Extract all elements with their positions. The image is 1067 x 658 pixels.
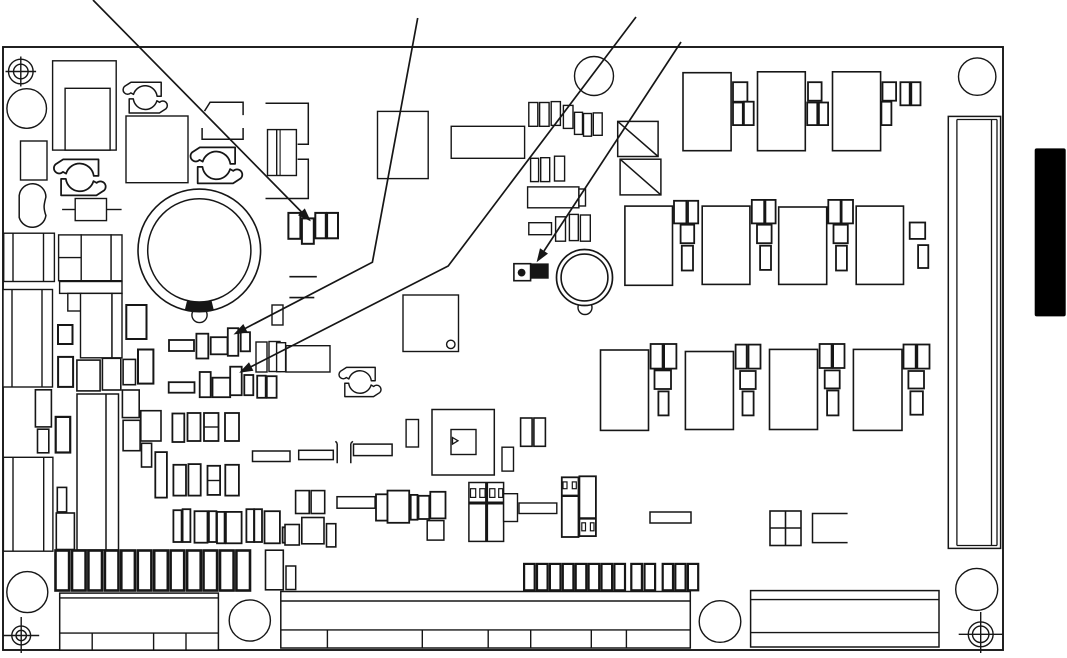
resistor R3 — [81, 293, 113, 357]
jumper JP1 (arrow 4 target) — [514, 264, 548, 281]
relay K3 — [562, 476, 596, 537]
connector J4 — [3, 290, 53, 388]
cluster rect g — [38, 429, 49, 453]
resistor R7 — [519, 503, 557, 514]
fiducial top-left — [6, 57, 37, 87]
trimmer assembly VR1 — [337, 491, 446, 523]
capacitor C6 — [59, 235, 82, 281]
connector J8 pin rows — [524, 564, 698, 590]
mounting hole bottom-left — [7, 572, 48, 613]
square module U2 — [126, 116, 188, 183]
capacitor C15 — [285, 525, 299, 546]
arrowhead 3 — [239, 362, 253, 372]
capacitor C12 — [502, 447, 514, 471]
IC row2-2 — [702, 200, 775, 285]
bracket component — [813, 514, 848, 543]
capacitor C16 — [327, 524, 336, 547]
mounting hole bottom-right — [956, 568, 998, 610]
fiducial bottom-left — [3, 617, 40, 653]
IC row2-4 — [856, 206, 903, 284]
resistor R5 — [253, 451, 291, 462]
dual hole pad (peanut) — [19, 184, 46, 228]
capacitor C10 — [58, 325, 73, 344]
resistor R4 — [112, 293, 122, 357]
connector J11 vertical right — [948, 116, 1000, 548]
cluster rect l — [141, 411, 161, 441]
cluster rect p — [56, 513, 74, 550]
cluster rect e — [138, 350, 153, 384]
capacitor C11 — [126, 305, 146, 339]
connector J9 long — [281, 592, 691, 649]
cluster rect o — [57, 487, 66, 512]
cluster rect j — [122, 390, 139, 418]
callout line 2 — [243, 18, 418, 330]
capacitor C14 — [302, 518, 324, 544]
arrowhead 2 — [234, 324, 248, 335]
relay K1 body — [268, 130, 297, 176]
relay K2 tab — [504, 494, 518, 522]
capacitor C1 — [21, 141, 48, 180]
cluster rect m — [142, 443, 152, 467]
relay K1 bracket — [266, 103, 309, 198]
capacitor pair row2 end — [910, 223, 929, 269]
IC U4 — [451, 126, 524, 158]
capacitor C17 — [286, 566, 296, 590]
small IC U9 — [406, 420, 418, 448]
cluster rect n — [155, 452, 167, 498]
capacitor cluster G4 — [556, 214, 591, 241]
electrolytic capacitor C5 — [557, 250, 613, 315]
IC U10 with pin1 mark — [432, 410, 494, 476]
mounting hole top-right — [959, 58, 996, 95]
capacitor C3 — [272, 305, 283, 325]
fuse F1 with clips — [299, 441, 392, 463]
spring clip CL2 — [191, 147, 243, 183]
cluster rect c — [102, 358, 120, 390]
IC U5 — [528, 187, 586, 208]
capacitor pair G7 — [256, 342, 286, 373]
capacitor C9 — [68, 293, 81, 311]
cluster rect b — [77, 360, 100, 391]
spring clip CL4 — [339, 367, 381, 396]
keyed connector J2 outline — [202, 102, 243, 139]
mounting hole top-center — [575, 57, 614, 96]
bar resistor R2 — [60, 282, 122, 294]
IC U8 tall — [77, 394, 119, 550]
capacitor pair G9 — [296, 491, 325, 514]
diode D2 — [620, 159, 661, 195]
IC U7 — [286, 346, 330, 372]
spring clip CL1 — [123, 82, 167, 113]
callout line 1 — [93, 0, 303, 214]
diode D1 — [618, 121, 658, 156]
capacitor row RA — [172, 413, 239, 442]
IC row2-1 — [625, 201, 698, 285]
mounting hole bottom-mid-right — [699, 601, 741, 643]
spring clip CL3 — [54, 159, 106, 195]
connector J12 left edge — [3, 457, 53, 551]
cluster rect a — [58, 357, 73, 387]
cluster rect i — [56, 417, 70, 453]
cluster rect d — [123, 359, 135, 384]
callout line 3 — [249, 17, 637, 368]
arrowhead 1 — [298, 208, 311, 221]
cluster rect f — [35, 390, 51, 427]
capacitor row RC — [173, 509, 289, 543]
IC row1-3 — [833, 72, 897, 151]
relay K2 — [469, 483, 504, 542]
connector J7 vertical — [266, 550, 284, 590]
silkscreen line A — [289, 276, 316, 278]
capacitor pair row1 end — [900, 82, 920, 105]
capacitor block G10 — [770, 511, 801, 546]
mounting hole top-left — [7, 89, 47, 129]
connector J10 — [751, 591, 939, 647]
mounting hole bottom-center — [229, 600, 270, 641]
capacitor cluster G2 — [529, 102, 602, 137]
transformer T1 — [53, 61, 117, 150]
resistor R1 with leads — [62, 199, 122, 221]
capacitor C13 — [427, 521, 444, 541]
connector J5 pin row — [56, 551, 251, 591]
IC row1-2 — [758, 72, 829, 151]
edge tab marker (black) — [1035, 148, 1066, 316]
capacitor C8 — [111, 235, 122, 281]
IC row3-3 — [770, 344, 845, 430]
callout line 4 — [544, 42, 681, 251]
capacitor pair G8 — [521, 418, 546, 446]
IC U3 — [378, 111, 429, 178]
capacitor row G5 (arrow 2 target) — [169, 328, 250, 358]
silkscreen line B — [289, 297, 314, 299]
electrolytic capacitor C2 (large) — [138, 189, 261, 323]
capacitor C7 — [81, 235, 111, 281]
connector J3 — [4, 233, 55, 281]
IC row3-2 — [685, 345, 760, 430]
IC row3-1 — [601, 344, 677, 430]
capacitor row RB — [173, 464, 239, 496]
IC row1-1 — [683, 73, 754, 151]
capacitor cluster G3 — [531, 156, 565, 181]
connector J6 — [60, 593, 219, 650]
resistor R8 — [650, 512, 691, 523]
cluster rect k — [123, 420, 140, 450]
IC row3-4 — [853, 345, 929, 431]
capacitor C4 — [529, 223, 552, 235]
capacitor group G1 (arrow 1 target) — [288, 213, 338, 244]
capacitor row G6 (arrow 3 target) — [169, 367, 277, 398]
IC U6 with pin-1 dot — [403, 295, 459, 352]
IC row2-3 — [779, 200, 853, 285]
arrowhead 4 — [537, 248, 548, 262]
fiducial bottom-right — [959, 612, 1003, 653]
